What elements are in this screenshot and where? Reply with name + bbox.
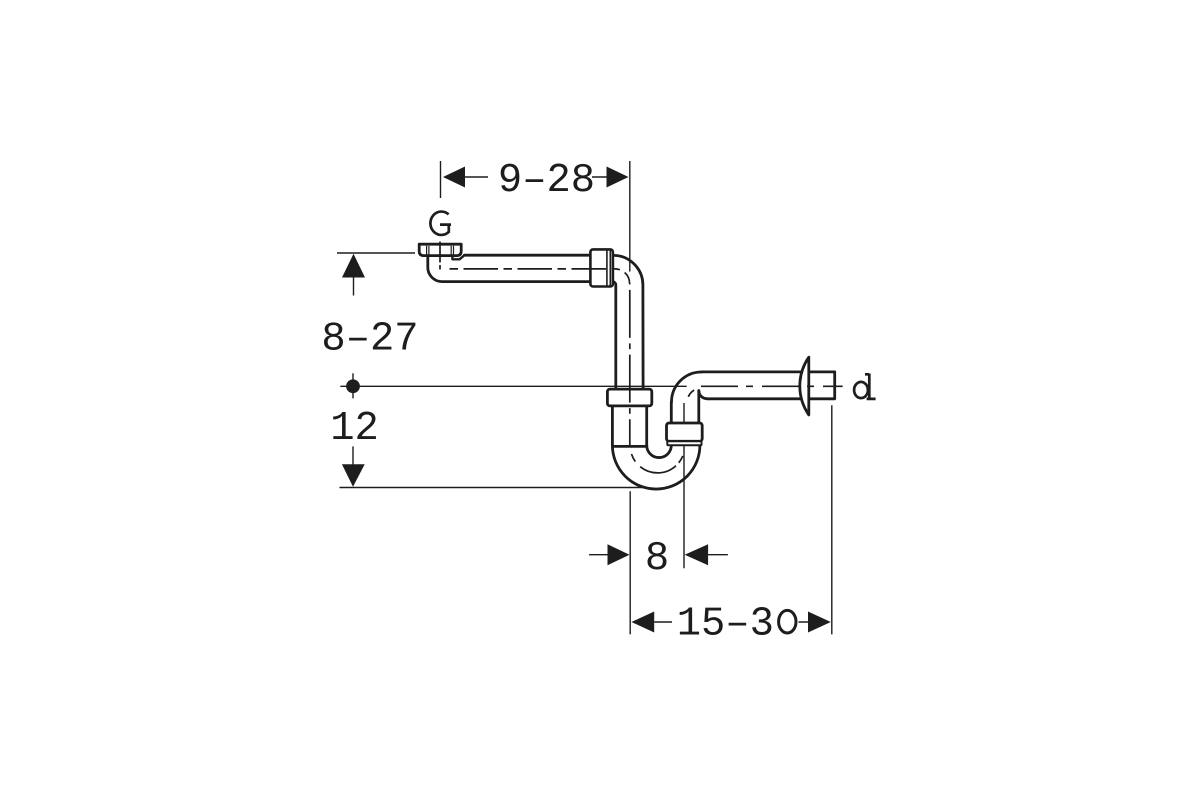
U-bend outer arc (612, 445, 700, 489)
wall flange (crescent escutcheon) (800, 357, 809, 415)
reference line outlet centerline extension (340, 385, 686, 387)
arrow 12 down (342, 464, 365, 487)
inlet pipe top edge (464, 254, 590, 257)
elbow outer (top right) (613, 255, 643, 389)
centerline U-bend arc (630, 446, 685, 473)
dimension line 9-28 tails (465, 176, 607, 178)
up-leg left edge (670, 402, 673, 423)
arrow 8-27 up (342, 254, 365, 278)
trap small nut lip (667, 441, 701, 445)
svg-text:15–3: 15–3 (677, 602, 774, 648)
node dot cross vertical (352, 373, 354, 398)
outlet pipe top edge (702, 370, 835, 373)
G-flange knurl lines (427, 246, 454, 255)
svg-text:8–27: 8–27 (321, 316, 418, 362)
extension line 9-28 left (440, 161, 442, 198)
lower reference line (trap bottom) (340, 487, 644, 489)
label 15-30 zero glyph (779, 610, 796, 633)
inlet pipe left bend and bottom edge (428, 256, 591, 282)
arrow tail 12 (352, 446, 354, 464)
dimension line 8 tails (589, 554, 728, 556)
svg-text:12: 12 (330, 406, 379, 452)
extension line 15-30 right (831, 405, 833, 634)
label G (custom glyph) (430, 212, 451, 235)
centerline G connection (439, 242, 441, 271)
arrow 9-28 left (443, 167, 465, 188)
svg-text:9–28: 9–28 (498, 158, 595, 204)
svg-text:8: 8 (645, 536, 669, 582)
U-bend inner arc (647, 445, 672, 457)
outlet elbow inner fillet (699, 391, 707, 399)
node dot on outlet axis (346, 379, 360, 393)
elbow inner (613, 282, 616, 390)
outlet pipe bottom edge and end cap (707, 372, 835, 399)
dimension line 15-30 tails (654, 621, 808, 623)
centerline outlet elbow dash (688, 390, 694, 397)
label d (custom glyph: bowl, stem, flag, foot serif) (854, 374, 876, 399)
centerline outlet pipe (701, 385, 843, 387)
trap nut (big) (607, 389, 651, 406)
up-leg right edge (697, 391, 700, 424)
arrow 8 right (points left) (685, 544, 708, 565)
arrow 9-28 right (607, 167, 629, 188)
arrow 8 left (points right) (608, 544, 630, 565)
trap small nut (667, 423, 703, 441)
extension line 8 left (629, 491, 631, 634)
G-flange (inlet union nut) (419, 244, 461, 255)
extension line 9-28 right (629, 161, 631, 272)
extension line 8 right (683, 403, 685, 568)
G-flange notch (452, 255, 464, 259)
arrow 15-30 right (points right) (808, 612, 831, 633)
union nut U1 (on inlet pipe) (590, 249, 613, 286)
dip tube sleeve (612, 406, 646, 447)
arrow 15-30 left (points left) (631, 612, 654, 633)
upper reference line (top of trap inlet) (337, 252, 415, 254)
outlet elbow outer (672, 372, 702, 402)
centerline inlet pipe (444, 269, 630, 284)
union nut U1 rim lines (607, 250, 610, 286)
arrow tail 8-27 (353, 277, 355, 296)
centerline down pipe (629, 284, 631, 447)
